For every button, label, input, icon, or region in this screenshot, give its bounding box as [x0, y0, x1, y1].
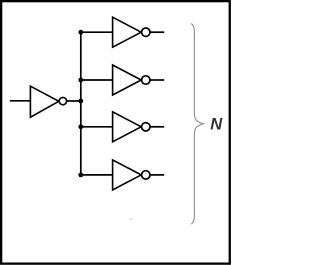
svg-text:N: N — [210, 116, 223, 134]
inverter U3 — [113, 65, 150, 95]
inverter U2 — [113, 17, 150, 47]
node: junction row 4 — [78, 173, 83, 178]
wire: output stub U5 — [150, 174, 164, 176]
frame (border) — [1, 1, 230, 264]
wire: branch to inverter U5 — [81, 174, 113, 176]
wire: vertical bus — [80, 32, 82, 175]
label N — [210, 116, 223, 134]
inverter U4 — [113, 112, 150, 142]
wire: driver output to bus — [67, 100, 81, 102]
inverter U5 — [113, 160, 150, 190]
brace (fanout group) — [191, 24, 203, 225]
wire: branch to inverter U3 — [81, 79, 113, 81]
wire: output stub U3 — [150, 79, 164, 81]
speck — [129, 218, 133, 220]
node: junction row 2 — [78, 78, 83, 83]
node: junction row 3 — [78, 124, 83, 129]
node: junction row 1 — [78, 30, 83, 35]
node: junction driver output — [78, 99, 83, 104]
inverter U1 (driver) — [30, 86, 66, 117]
wire: branch to inverter U4 — [81, 126, 113, 128]
wire: branch to inverter U2 — [81, 31, 113, 33]
wire: output stub U4 — [150, 126, 164, 128]
wire: input to driver inverter — [10, 100, 31, 102]
wire: output stub U2 — [150, 31, 164, 33]
